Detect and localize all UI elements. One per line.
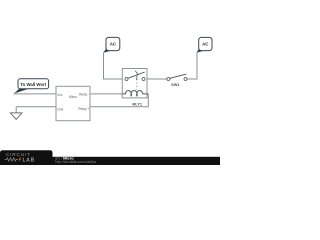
wire AC left vertical xyxy=(104,53,126,80)
wire Relay- (Micro to relay coil) xyxy=(90,93,122,95)
relay coil loop 2 xyxy=(136,94,137,96)
relay coil L xyxy=(122,91,148,94)
svg-text:LAB: LAB xyxy=(23,158,35,164)
svg-text:RLY1: RLY1 xyxy=(132,102,142,107)
svg-text:http://circuitlab.com/c/ab8pz: http://circuitlab.com/c/ab8pz xyxy=(56,160,97,164)
svg-text:Relay +: Relay + xyxy=(78,107,89,111)
flag To Wall Wort xyxy=(14,79,49,94)
relay actuator dashed link xyxy=(136,82,138,89)
svg-text:AC: AC xyxy=(202,42,209,47)
logo resistor zigzag xyxy=(5,158,19,161)
logo bolt xyxy=(19,157,22,161)
relay coil loop 1 xyxy=(131,94,132,96)
flag AC left xyxy=(103,37,119,52)
relay RLY1 box xyxy=(122,69,147,98)
flag AC right xyxy=(196,37,212,52)
relay actuator stem xyxy=(136,75,138,80)
svg-text:Gnd: Gnd xyxy=(57,107,63,111)
wire Vcc (To Wall Wort to Micro) xyxy=(14,93,57,95)
relay switch left contact xyxy=(125,78,128,81)
svg-text:Micro: Micro xyxy=(69,95,77,99)
watermark logo chip xyxy=(0,150,53,165)
relay switch blade xyxy=(128,72,145,78)
relay blade tick xyxy=(135,71,138,76)
svg-text:Relay -: Relay - xyxy=(79,93,89,97)
relay switch right contact xyxy=(142,78,145,81)
svg-text:Vcc: Vcc xyxy=(57,93,63,97)
wire Gnd (ground to Micro) xyxy=(16,106,56,108)
watermark bar xyxy=(0,157,220,165)
microcontroller box Micro xyxy=(56,86,90,120)
svg-text:SW1: SW1 xyxy=(171,82,180,87)
relay actuator arrow xyxy=(136,79,138,81)
wire Relay+ (Micro to relay coil right) xyxy=(90,94,148,107)
ground xyxy=(10,107,22,120)
svg-text:AC: AC xyxy=(110,42,117,47)
svg-text:To Wall Wort: To Wall Wort xyxy=(20,82,46,87)
wire relay switch to SW1 xyxy=(145,78,167,80)
wire SW1 to AC right xyxy=(187,53,197,79)
switch SW1 xyxy=(167,74,187,80)
